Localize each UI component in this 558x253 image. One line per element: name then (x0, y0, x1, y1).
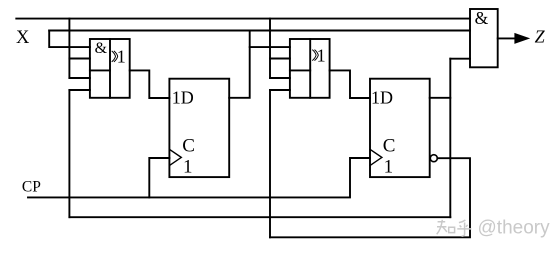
svg-text:1D: 1D (371, 87, 393, 107)
svg-text:1: 1 (183, 157, 193, 178)
gate G1 AND-OR box (90, 39, 130, 98)
gate G2 column divider (309, 39, 311, 98)
wire G2 input 4 (270, 89, 290, 91)
svg-text:C: C (383, 135, 396, 156)
wire G1 input 2 (69, 58, 90, 60)
wire X riser stage 2 (269, 19, 271, 78)
wire G1 input 4 (69, 89, 90, 91)
svg-text:1D: 1D (172, 87, 194, 107)
wire FF1 Q output up to net-Q1 (229, 31, 250, 98)
gate G1 left cell divider (90, 69, 110, 71)
wire net-X top horizontal line (16, 18, 470, 20)
arrowhead output (514, 33, 530, 44)
wire G1 input 3 (69, 77, 90, 79)
wire G2 input 3 (270, 77, 290, 79)
svg-text:1: 1 (384, 157, 394, 178)
watermark zhihu logo text (437, 220, 472, 236)
svg-text:&: & (475, 8, 489, 28)
gate G2 left cell divider (290, 69, 310, 71)
svg-text:Z: Z (535, 27, 546, 47)
wire G1 output to FF1 1D (130, 70, 170, 98)
wire FF1 clock from CP (149, 158, 169, 197)
svg-text:C: C (182, 135, 195, 156)
gate G1 OR chevrons (112, 51, 118, 62)
gate G1 column divider (109, 39, 111, 98)
wire FF2 Q output to net-Q2 riser (430, 97, 451, 99)
gate U3 AND box (470, 9, 498, 67)
wire Q2-bar feedback to stage 2 (270, 158, 470, 237)
wire G2 input 2 (270, 58, 290, 60)
flip-flop FF1 box (169, 79, 229, 177)
wire AND gate input 3 (450, 58, 470, 60)
wire output Z (498, 37, 516, 39)
flip-flop FF2 inverted output bubble (430, 155, 437, 162)
flip-flop FF1 clock triangle (169, 149, 181, 165)
gate G2 OR chevrons (312, 50, 318, 61)
flip-flop FF2 box (370, 79, 430, 177)
wire feedback riser stage 1 (68, 90, 70, 217)
wire CP line (28, 158, 370, 197)
gate G2 AND-OR box (290, 39, 330, 98)
wire feedback line Q2 to G1 input 4 (69, 216, 450, 218)
wire G2 output to FF2 1D (330, 70, 370, 98)
svg-text:&: & (95, 40, 108, 57)
flip-flop FF2 clock triangle (370, 149, 382, 165)
svg-text:1: 1 (317, 46, 326, 66)
svg-text:@theory: @theory (478, 218, 551, 239)
wire feedback riser stage 2 (269, 90, 271, 237)
wire staircase from net-Q1 down to G1 input 1 (49, 31, 90, 48)
svg-text:CP: CP (22, 178, 41, 195)
svg-text:1: 1 (117, 47, 126, 67)
wire net-Q1 second horizontal line to AND gate (49, 30, 470, 32)
svg-text:X: X (16, 28, 30, 48)
wire net-Q2 vertical (449, 59, 451, 218)
wire X riser stage 1 (68, 19, 70, 78)
wire G2 input 1 from net-Q1 riser (250, 46, 290, 48)
